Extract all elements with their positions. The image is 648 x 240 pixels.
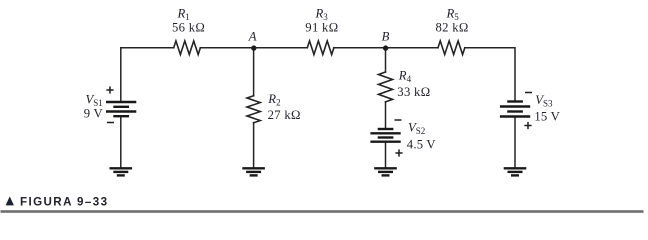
label R4 value 33 kOhm [397, 69, 430, 99]
wire node A down to R2 [253, 48, 255, 96]
resistor R2 [247, 96, 260, 123]
wire node B down to R4 [385, 48, 387, 72]
plus sign VS1 [106, 86, 113, 93]
svg-text:56 kΩ: 56 kΩ [172, 20, 205, 34]
svg-text:R4: R4 [398, 69, 412, 85]
svg-text:33 kΩ: 33 kΩ [397, 85, 430, 99]
wire top-left segment [121, 47, 174, 49]
svg-text:15 V: 15 V [534, 109, 560, 123]
resistor R4 [379, 72, 393, 102]
battery VS2 [370, 129, 400, 142]
svg-text:9 V: 9 V [84, 106, 104, 120]
resistor R1 [174, 41, 201, 55]
node A [251, 45, 256, 50]
label VS1 9V [84, 93, 104, 121]
caption rule [1, 210, 644, 213]
wire left vertical to VS1 [120, 48, 122, 101]
ground (VS2 branch) [374, 168, 397, 175]
label VS2 4.5V [407, 121, 437, 152]
ground (VS1 branch) [110, 168, 133, 175]
plus sign VS2 [395, 149, 402, 156]
wire VS1 to ground [120, 117, 122, 167]
wire R5 to top-right corner and down to VS3 [465, 48, 515, 101]
svg-text:B: B [382, 29, 390, 43]
battery VS1 [106, 102, 136, 116]
svg-text:82 kΩ: 82 kΩ [436, 20, 469, 34]
resistor R3 [307, 41, 334, 55]
svg-text:VS2: VS2 [408, 121, 425, 137]
ground (VS3 branch) [504, 168, 527, 175]
wire R4 to VS2 [385, 102, 387, 128]
label R2 value 27 kOhm [267, 92, 300, 122]
wire R3 to node B [334, 47, 386, 49]
wire R2 to ground [253, 123, 255, 167]
minus sign VS1 [107, 122, 114, 124]
label VS3 15V [534, 93, 560, 123]
plus sign VS3 [524, 122, 531, 129]
label R3 value 91 kOhm [305, 7, 338, 35]
caption triangle marker [6, 196, 14, 205]
label R5 value 82 kOhm [436, 7, 469, 35]
wire R1 to node A [200, 47, 253, 49]
svg-text:A: A [248, 29, 257, 43]
minus sign VS2 [395, 119, 402, 121]
wire VS3 to ground [514, 118, 516, 168]
svg-text:FIGURA 9–33: FIGURA 9–33 [20, 196, 108, 209]
svg-text:R2: R2 [267, 92, 280, 108]
svg-text:27 kΩ: 27 kΩ [268, 108, 301, 122]
battery VS3 [500, 102, 530, 117]
svg-text:VS3: VS3 [535, 93, 553, 109]
wire node A to R3 [254, 47, 308, 49]
wire node B to R5 [386, 47, 439, 49]
resistor R5 [438, 41, 465, 55]
minus sign VS3 [525, 92, 532, 94]
node B [383, 45, 388, 50]
wire VS2 to ground [385, 143, 387, 167]
svg-text:4.5 V: 4.5 V [407, 138, 437, 152]
label R1 value 56 kOhm [172, 7, 205, 35]
ground (R2 branch) [242, 168, 265, 175]
svg-text:91 kΩ: 91 kΩ [305, 20, 338, 34]
